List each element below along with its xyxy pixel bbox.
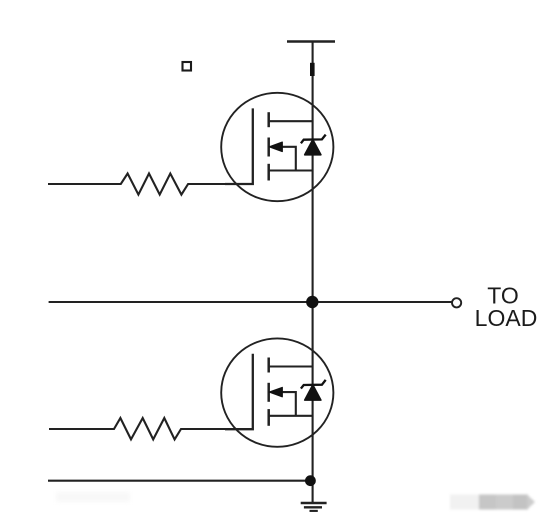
resistor R1 (top gate resistor) xyxy=(48,174,231,195)
transistor Q2 (bottom MOSFET) xyxy=(221,338,333,446)
node B (bottom junction dot) xyxy=(305,475,316,486)
supply rail top bar xyxy=(287,40,335,43)
svg-text:LOAD: LOAD xyxy=(475,305,538,331)
terminal to load (open circle) xyxy=(452,298,461,307)
Q1 drain bar xyxy=(269,120,313,122)
Q1 source bar xyxy=(269,169,313,171)
Q2 source bar xyxy=(269,415,313,417)
watermark remnant bottom-left xyxy=(56,492,130,502)
diode D2 (Q2 body zener) xyxy=(301,380,326,400)
watermark remnant bottom-right xyxy=(450,495,535,510)
diode D1 (Q1 body zener) xyxy=(301,135,326,155)
node A (mid junction) xyxy=(49,296,452,308)
Q2 body terminal with arrow xyxy=(281,392,296,416)
ground xyxy=(301,503,327,511)
label TO LOAD xyxy=(475,283,538,331)
stray square mark xyxy=(183,62,192,71)
blob mark on rail xyxy=(310,63,315,76)
Q2 drain bar xyxy=(269,365,313,367)
Q1 body circle xyxy=(221,93,333,201)
Q1 gate xyxy=(225,108,253,184)
Q2 gate xyxy=(225,354,253,430)
Q1 channel dashes xyxy=(267,112,270,180)
Q1 body terminal with arrow xyxy=(281,147,296,171)
Q2 channel dashes xyxy=(267,358,270,426)
transistor Q1 (top MOSFET) xyxy=(221,93,333,201)
wire: bottom return line xyxy=(48,480,311,482)
wire: main vertical rail xyxy=(312,42,314,504)
Q2 body circle xyxy=(221,338,333,446)
resistor R2 (bottom gate resistor) xyxy=(49,418,231,439)
